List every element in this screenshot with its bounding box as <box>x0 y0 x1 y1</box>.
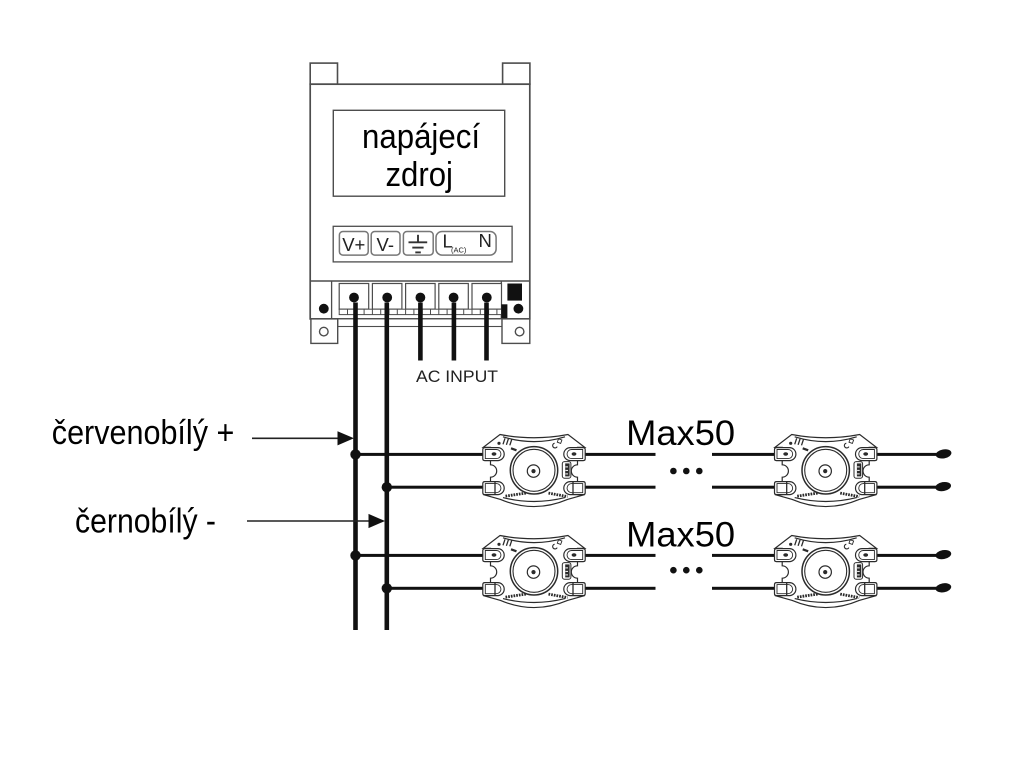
ellipsis row2 <box>670 567 702 574</box>
arrowhead to V- wire <box>369 514 386 528</box>
wire row2 plus: gap to module D4 <box>712 554 776 557</box>
wire V- vertical <box>385 303 390 631</box>
LED module D1 <box>483 435 585 507</box>
arrowhead to V+ wire <box>338 431 355 445</box>
terminal cell 1 <box>339 284 369 310</box>
power supply unit: body/terminal divider line <box>310 280 530 282</box>
junction V+ row2 <box>350 550 360 560</box>
arrow line to V- wire <box>247 520 370 522</box>
svg-text:napájecí: napájecí <box>362 118 481 156</box>
wire row2 plus: V+ junction to module D3 <box>353 554 484 557</box>
terminal screw 1 (V+) <box>349 293 359 303</box>
wire row1 minus: module D1 to gap <box>585 486 656 489</box>
wire row1 plus: V+ junction to module D1 <box>353 453 484 456</box>
wire AC PE <box>418 303 423 361</box>
terminal cell 2 <box>372 284 402 310</box>
terminal label strip <box>333 226 512 262</box>
wire end ferrule row2 plus <box>935 549 952 561</box>
LED module D3 <box>483 536 585 608</box>
wire row1 minus: gap to module D2 <box>712 486 776 489</box>
wire row1 plus: gap to module D2 <box>712 453 776 456</box>
mounting flange left <box>311 319 338 344</box>
terminal cell 3 <box>406 284 436 310</box>
mounting flange right <box>502 319 530 344</box>
terminal screw 3 (PE) <box>416 293 426 303</box>
terminal notch strip <box>339 309 501 314</box>
terminal screw 4 (L) <box>449 293 459 303</box>
wire AC N <box>484 303 489 361</box>
wire row1 minus: V- junction to module D1 <box>385 486 485 489</box>
wire end ferrule row1 minus <box>935 481 952 493</box>
arrow line to V+ wire <box>252 437 339 439</box>
bottom lip strip <box>338 319 502 327</box>
wire AC L <box>452 303 457 361</box>
wire row1 plus: module D2 to end <box>876 453 939 456</box>
svg-text:červenobílý +: červenobílý + <box>52 414 235 452</box>
junction V+ row1 <box>350 449 360 459</box>
junction V- row2 <box>382 583 392 593</box>
ellipsis row1 <box>670 468 702 475</box>
black component small rect right <box>501 304 507 319</box>
wire end ferrule row1 plus <box>935 448 952 460</box>
wire row2 minus: V- junction to module D3 <box>385 587 485 590</box>
svg-text:zdroj: zdroj <box>385 156 453 194</box>
svg-text:AC INPUT: AC INPUT <box>416 367 498 386</box>
flange hole left <box>320 327 329 336</box>
black component square top right <box>507 284 522 301</box>
terminal label PE earth ground symbol <box>403 232 433 256</box>
terminal screw 5 (N) <box>482 293 492 303</box>
svg-text:N: N <box>479 230 492 251</box>
wire row2 minus: module D4 to end <box>876 587 939 590</box>
terminal cell 4 <box>439 284 469 310</box>
terminal label L(AC) N <box>436 230 496 255</box>
wire row1 minus: module D2 to end <box>876 486 939 489</box>
power supply unit: mounting tab left <box>310 63 337 84</box>
power supply unit: main body <box>310 84 530 319</box>
svg-text:černobílý -: černobílý - <box>75 502 216 540</box>
wire V+ vertical <box>353 303 358 631</box>
terminal label V+ <box>339 232 368 256</box>
terminal screw 2 (V-) <box>382 293 392 303</box>
wire row2 minus: gap to module D4 <box>712 587 776 590</box>
power supply unit: mounting tab right <box>503 63 530 84</box>
svg-text:V+: V+ <box>342 234 365 255</box>
svg-text:(AC): (AC) <box>451 246 467 255</box>
terminal label V- <box>371 232 400 256</box>
wire row2 plus: module D4 to end <box>876 554 939 557</box>
svg-text:Max50: Max50 <box>626 516 735 555</box>
wire row2 minus: module D3 to gap <box>585 587 656 590</box>
svg-text:V-: V- <box>377 234 394 255</box>
case screw right <box>514 304 524 314</box>
LED module D2 <box>775 435 877 507</box>
junction V- row1 <box>382 482 392 492</box>
power supply label box <box>333 110 504 196</box>
terminal cell 5 <box>472 284 502 310</box>
wire end ferrule row2 minus <box>935 582 952 594</box>
wire row1 plus: module D1 to gap <box>585 453 656 456</box>
case screw left <box>319 304 329 314</box>
flange hole right <box>515 327 524 336</box>
LED module D4 <box>775 536 877 608</box>
svg-text:Max50: Max50 <box>626 414 735 453</box>
terminal block left separator <box>331 281 333 319</box>
terminal block right separator <box>500 281 502 319</box>
wire row2 plus: module D3 to gap <box>585 554 656 557</box>
